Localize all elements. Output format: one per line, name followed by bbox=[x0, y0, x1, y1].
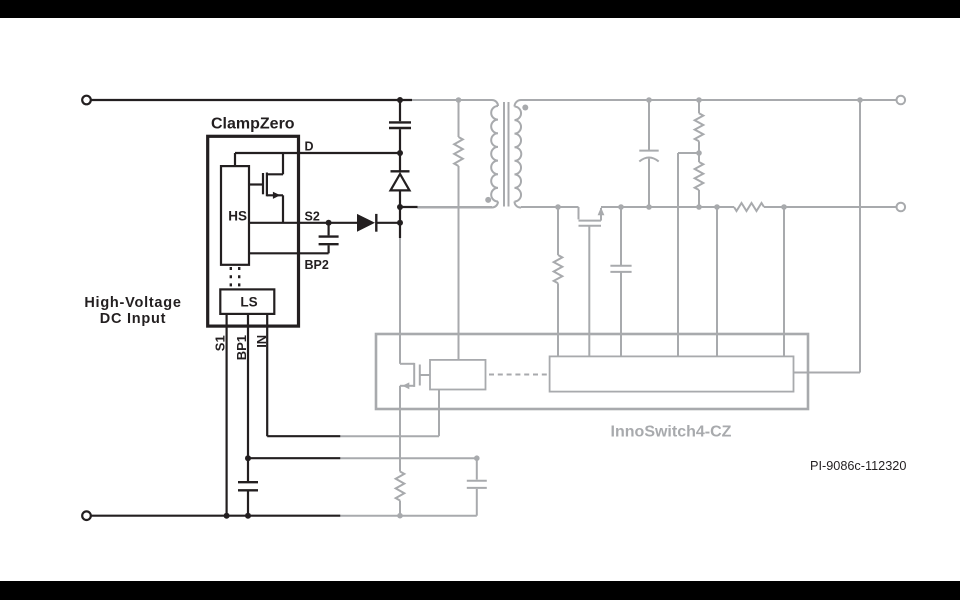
svg-text:S2: S2 bbox=[305, 210, 320, 224]
svg-text:ClampZero: ClampZero bbox=[211, 116, 295, 133]
svg-text:LS: LS bbox=[240, 294, 257, 309]
svg-text:IN: IN bbox=[254, 335, 269, 348]
svg-text:HS: HS bbox=[228, 209, 247, 224]
svg-text:D: D bbox=[305, 140, 314, 154]
svg-text:PI-9086c-112320: PI-9086c-112320 bbox=[810, 459, 906, 473]
svg-text:BP2: BP2 bbox=[305, 258, 329, 272]
svg-text:S1: S1 bbox=[212, 335, 227, 351]
svg-text:InnoSwitch4-CZ: InnoSwitch4-CZ bbox=[611, 424, 732, 441]
svg-text:DC Input: DC Input bbox=[100, 311, 166, 327]
svg-text:High-Voltage: High-Voltage bbox=[84, 295, 181, 311]
svg-text:BP1: BP1 bbox=[234, 335, 249, 360]
